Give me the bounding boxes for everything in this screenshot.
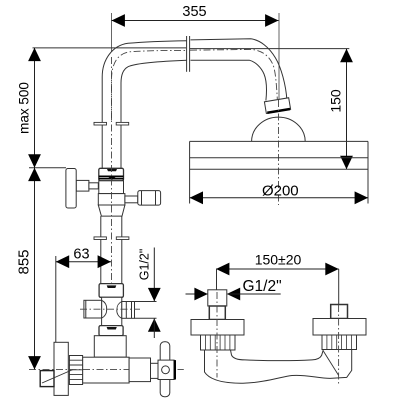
G12 br arrow right-pointing [194,288,207,301]
neck [151,363,159,378]
dim 355 line [112,20,279,22]
wall flange [54,342,68,395]
left fitting nut [201,335,236,350]
dim 63 line [56,261,111,263]
svg-text:355: 355 [182,4,206,20]
left handle bar [66,169,76,209]
svg-text:150: 150 [327,89,343,113]
max500 arrow down [28,154,41,167]
dim 855 line [34,168,36,370]
max500/855 middle extension line [29,167,66,169]
left fitting thread square [209,306,225,320]
arm right segment bottom edge [191,60,267,100]
dim 63 arrow right [98,255,111,268]
valve cap bold band 2 [99,178,124,180]
riser pipe upper right edge [120,83,122,168]
valve taper [98,205,125,216]
G12 mid leader line lower [153,318,155,338]
bottom centerline horizontal [29,369,184,371]
dim 200 arrow left [190,191,203,204]
arm centerline [112,49,278,120]
cross right arm ring lines [125,302,127,319]
G12 mid arrow down [148,288,161,301]
dim 200 arrow right [355,191,368,204]
svg-text:150±20: 150±20 [255,252,302,268]
shower nut [264,98,290,114]
cross body vertical [102,297,122,325]
cross centerline horizontal [80,308,140,310]
riser lower right edge [121,216,123,284]
cross top nut [99,284,123,298]
dim 150pm20 arrow right [325,263,338,276]
valve cap notch [108,176,117,180]
right knob line 1 [141,191,143,206]
arm left segment outer edge [102,41,187,83]
right fitting square [331,305,348,319]
valve body upper [99,181,124,194]
wall square nipple [40,371,54,387]
right fitting centerline [338,305,340,385]
valve cap [99,168,124,181]
bar body [205,350,352,384]
riser centerline [111,57,113,360]
dim 355 arrow right [265,14,278,27]
handle hub bold edge [174,360,176,379]
right knob line 2 [155,191,157,206]
left handle hub [76,180,89,191]
right fitting flange [313,319,366,336]
left fitting nut ribs [205,335,230,350]
plate left edge [189,141,191,203]
bar right chamfer diagonal [323,351,338,375]
dim 355 extension line right [278,13,280,100]
riser pipe upper left edge [101,83,103,168]
cross bottom nut thread shading [107,327,117,330]
dim 150 arrow down [340,156,353,169]
cross center neck fillets [102,300,122,318]
dim 200 line [190,197,368,199]
right fitting nut ribs [327,335,352,350]
G12 br arrow left-pointing [227,288,240,301]
cross left arm cap [85,300,87,318]
valve cap thread shading [107,169,117,171]
riser tick upper right [116,122,129,125]
plate top edge [190,140,368,142]
stem housing right [129,358,150,382]
riser tick upper left [94,122,107,125]
main cylinder [83,357,130,383]
G12 mid line at arm bottom [135,317,157,319]
s-union diagonal [42,370,73,384]
shower head centerline [278,100,280,205]
cross right arm [122,302,135,319]
G12 mid line at arm top [135,301,157,303]
dim 63 extension line [55,256,57,342]
G12 br dim line right [227,293,281,295]
dim 150 top extension line [190,48,349,50]
handle hub [158,360,174,379]
left fitting collar [208,290,227,306]
left handle stem [89,183,98,189]
cross top nut thread shading [107,285,117,288]
dim 150 line [346,49,348,169]
right knob [138,191,161,206]
dim 855 arrow up [28,168,41,181]
ribbed nut ribs [69,360,82,379]
left fitting centerline [216,292,218,378]
svg-text:Ø200: Ø200 [262,182,299,199]
svg-text:G1/2": G1/2" [138,249,152,281]
riser tick lower right [116,237,129,240]
max500 arrow up [28,48,41,61]
lower body block [94,336,126,358]
dim 150pm20 ext right [338,269,340,305]
dim 150 arrow up [340,49,353,62]
dim 63 arrow left [56,255,69,268]
shower head dome [252,117,306,141]
cross left arm [84,300,102,318]
dim 355 arrow left [112,14,125,27]
right fitting nut [322,335,357,350]
G12 br dim line left [186,293,208,295]
arm union tick 2 [189,36,191,72]
right knob stem [125,196,138,203]
arm union tick 1 [186,36,188,72]
dim 150pm20 arrow left [216,263,229,276]
svg-text:855: 855 [16,249,33,274]
valve cap bold band 1 [99,175,124,177]
svg-text:63: 63 [73,247,89,263]
max500 dim line [34,48,36,168]
arm left segment inner edge [121,60,187,83]
plate bottom edge [190,168,368,170]
ribbed nut [69,356,82,385]
svg-text:max 500: max 500 [16,82,31,134]
G12 mid arrow up [148,318,161,331]
dim 355 extension line left [111,13,113,52]
arm right segment top edge [191,39,287,101]
svg-text:G1/2": G1/2" [243,278,282,295]
left fitting flange [191,320,244,336]
cross bottom nut [99,326,123,336]
dim 150pm20 line [216,268,339,270]
handle hub circle [162,366,170,374]
plate mid line [190,157,368,159]
dim 855 arrow down [28,356,41,369]
valve body lower [98,194,125,205]
max500 top extension line [33,47,187,49]
G12 mid leader line upper [153,248,155,302]
riser tick lower left [94,237,106,240]
riser lower left edge [100,216,102,284]
handle bar vertical [160,342,170,397]
dim 150pm20 ext left [216,269,218,291]
plate right edge [367,141,369,203]
